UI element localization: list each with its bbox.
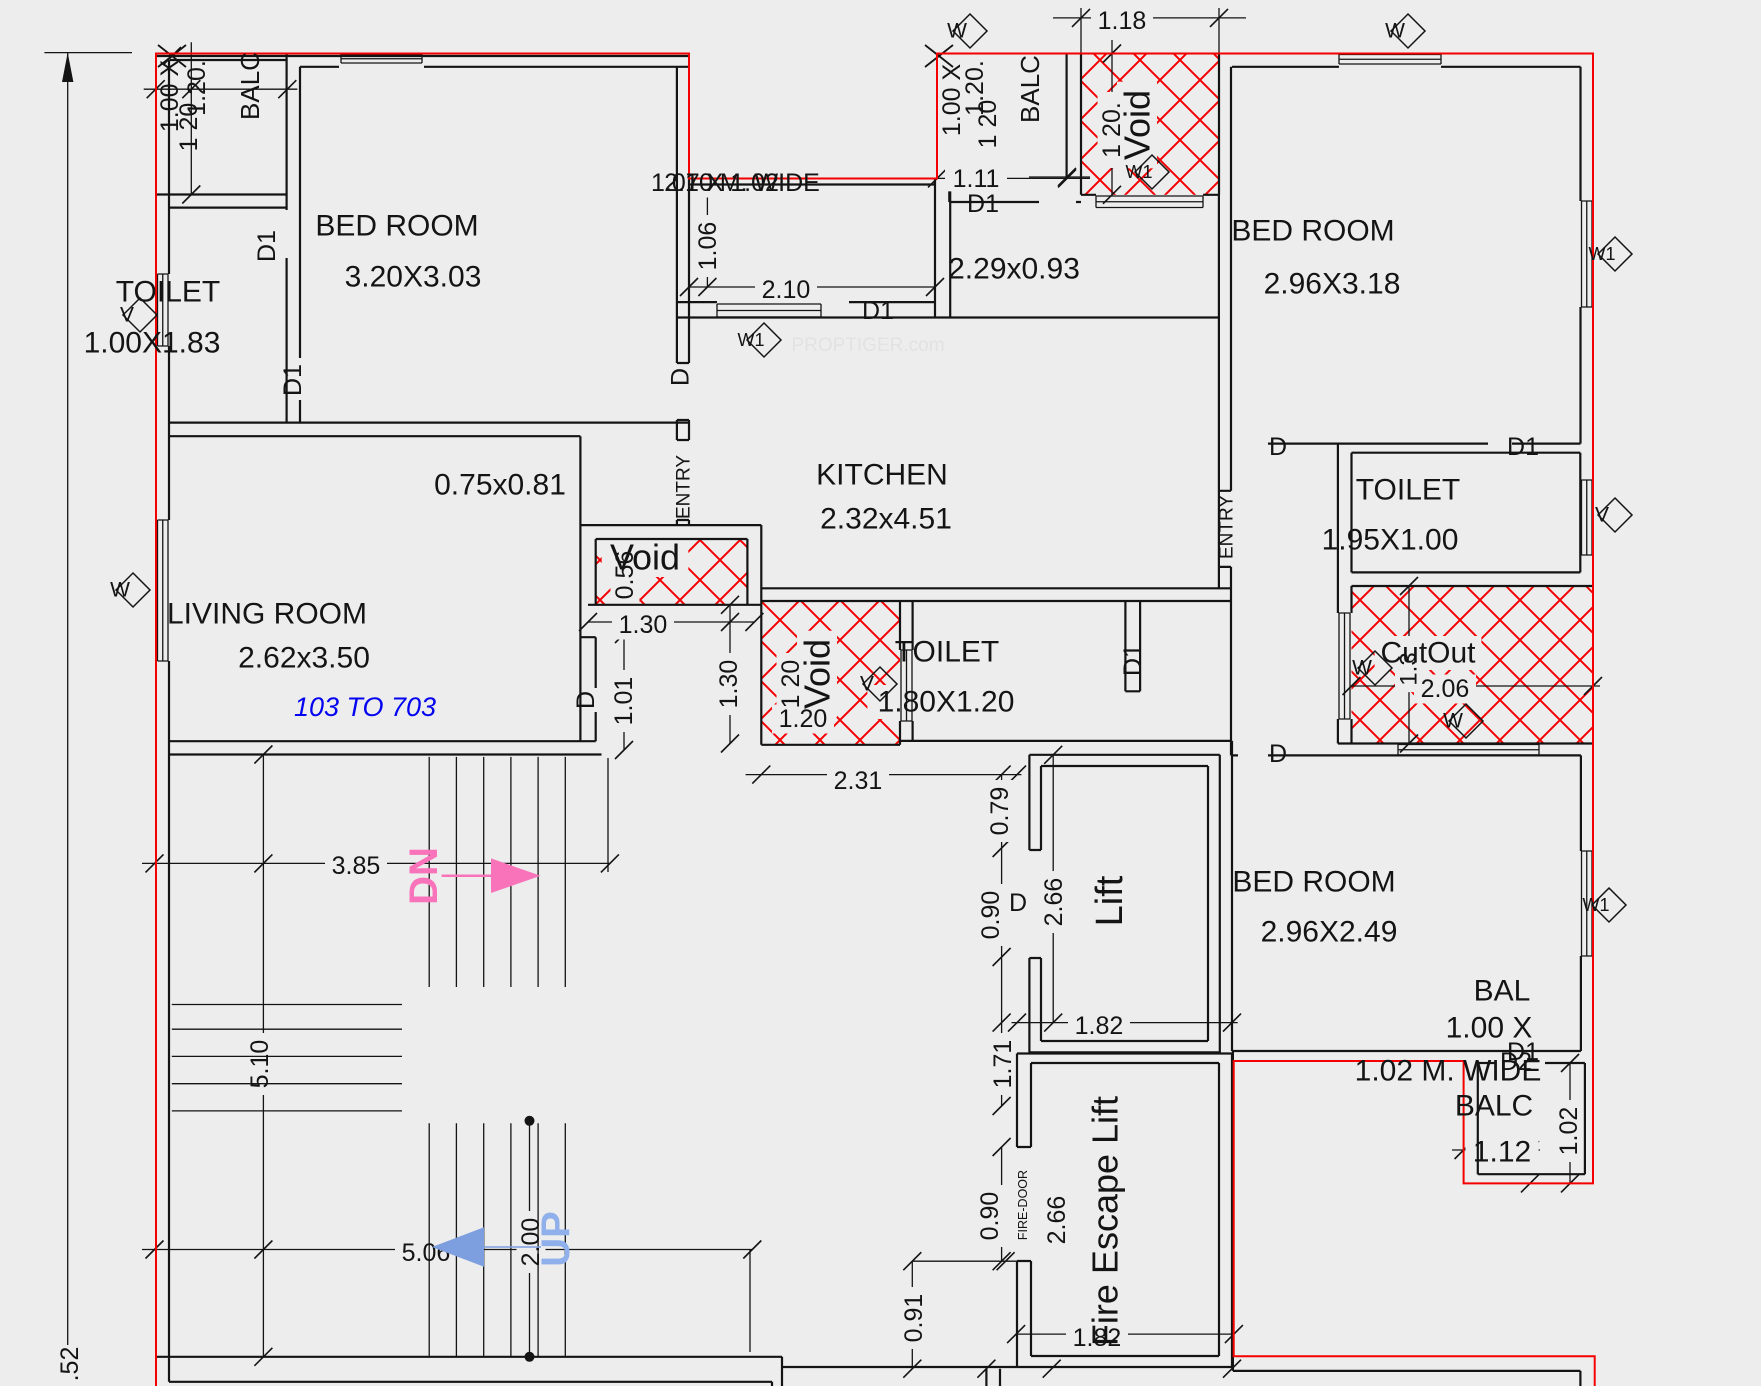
svg-text:W: W <box>1352 657 1372 680</box>
svg-text:1.82: 1.82 <box>1073 1324 1122 1352</box>
svg-text:2.31: 2.31 <box>834 767 883 795</box>
svg-text:2.66: 2.66 <box>1043 1196 1071 1245</box>
svg-text:1.00X1.83: 1.00X1.83 <box>84 327 221 360</box>
svg-text:Lift: Lift <box>1089 875 1131 926</box>
svg-text:W1: W1 <box>1126 162 1153 182</box>
svg-text:1.71: 1.71 <box>989 1040 1017 1089</box>
svg-text:BALC: BALC <box>1015 55 1045 123</box>
svg-text:2.96X3.18: 2.96X3.18 <box>1264 268 1401 301</box>
svg-text:2.96X2.49: 2.96X2.49 <box>1261 916 1398 949</box>
svg-text:D: D <box>572 691 600 709</box>
svg-text:D1: D1 <box>1119 644 1147 676</box>
svg-text:2.62x3.50: 2.62x3.50 <box>238 642 370 675</box>
svg-text:W1: W1 <box>1589 244 1616 264</box>
svg-text:D: D <box>667 368 695 386</box>
svg-text:1.82: 1.82 <box>1075 1012 1124 1040</box>
svg-text:103 TO 703: 103 TO 703 <box>294 692 436 722</box>
svg-text:BED ROOM: BED ROOM <box>315 210 478 243</box>
svg-text:0.56: 0.56 <box>611 551 639 600</box>
svg-text:0.79: 0.79 <box>986 787 1014 836</box>
svg-text:1.80X1.20: 1.80X1.20 <box>878 686 1015 719</box>
svg-text:LIVING ROOM: LIVING ROOM <box>167 598 367 631</box>
svg-text:V: V <box>860 673 874 696</box>
svg-text:1.3: 1.3 <box>1396 652 1423 685</box>
svg-text:1 20.: 1 20. <box>1098 102 1126 158</box>
svg-text:V: V <box>1595 504 1609 527</box>
svg-text:D1: D1 <box>862 297 894 325</box>
svg-text:1.30: 1.30 <box>715 660 743 709</box>
svg-text:2.32x4.51: 2.32x4.51 <box>820 503 952 536</box>
svg-text:0.90: 0.90 <box>977 891 1005 940</box>
svg-text:W: W <box>1385 20 1405 43</box>
svg-text:D1: D1 <box>279 364 307 396</box>
svg-text:DN: DN <box>402 847 446 905</box>
svg-text:W1: W1 <box>1583 895 1610 915</box>
svg-text:D1: D1 <box>1507 1038 1539 1066</box>
svg-text:UP: UP <box>534 1211 578 1267</box>
svg-text:BALC: BALC <box>235 52 265 120</box>
svg-text:1.11: 1.11 <box>953 165 1000 193</box>
svg-text:1.02: 1.02 <box>1555 1107 1583 1156</box>
svg-text:2.10: 2.10 <box>762 276 811 304</box>
svg-text:FIRE-DOOR: FIRE-DOOR <box>1016 1170 1030 1240</box>
svg-text:TOILET: TOILET <box>1356 474 1460 507</box>
svg-text:1.12: 1.12 <box>1473 1136 1531 1169</box>
svg-text:1.18: 1.18 <box>1098 7 1147 35</box>
svg-text:1 20: 1 20 <box>974 100 1002 149</box>
svg-text:1.95X1.00: 1.95X1.00 <box>1322 524 1459 557</box>
svg-text:BAL: BAL <box>1474 975 1531 1008</box>
svg-text:0.75x0.81: 0.75x0.81 <box>434 469 566 502</box>
svg-text:W: W <box>110 579 130 602</box>
svg-text:BED ROOM: BED ROOM <box>1232 866 1395 899</box>
svg-text:BALC: BALC <box>1455 1090 1533 1123</box>
svg-text:D1: D1 <box>1507 433 1539 461</box>
svg-text:2.29x0.93: 2.29x0.93 <box>948 253 1080 286</box>
svg-text:5.10: 5.10 <box>246 1040 274 1089</box>
svg-text:W1: W1 <box>738 330 765 350</box>
svg-text:Fire Escape Lift: Fire Escape Lift <box>1085 1096 1126 1346</box>
svg-text:TOILET: TOILET <box>895 636 999 669</box>
svg-text:D1: D1 <box>253 230 281 262</box>
svg-text:PROPTIGER.com: PROPTIGER.com <box>791 335 944 356</box>
svg-text:1.01: 1.01 <box>610 677 638 726</box>
svg-text:3.85: 3.85 <box>332 852 381 880</box>
svg-text:2.10 M. WIDE: 2.10 M. WIDE <box>664 169 820 197</box>
svg-text:KITCHEN: KITCHEN <box>816 459 948 492</box>
svg-text:1 20: 1 20 <box>777 660 805 709</box>
svg-text:D1: D1 <box>967 190 999 218</box>
svg-text:V: V <box>120 304 134 327</box>
svg-text:D: D <box>1009 889 1027 917</box>
svg-text:W: W <box>1443 710 1463 733</box>
svg-text:2.06: 2.06 <box>1421 675 1470 703</box>
svg-text:1.06: 1.06 <box>694 222 722 271</box>
svg-text:W: W <box>947 20 967 43</box>
svg-text:1 20: 1 20 <box>175 103 203 152</box>
svg-text:0.90: 0.90 <box>976 1192 1004 1241</box>
svg-text:.52: .52 <box>56 1347 84 1382</box>
svg-text:D: D <box>1269 433 1287 461</box>
svg-text:1.30: 1.30 <box>619 611 668 639</box>
svg-text:1.20: 1.20 <box>779 705 828 733</box>
svg-text:3.20X3.03: 3.20X3.03 <box>345 261 482 294</box>
svg-text:0.91: 0.91 <box>900 1294 928 1343</box>
svg-text:D: D <box>1269 740 1287 768</box>
svg-text:ENTRY: ENTRY <box>674 455 695 519</box>
svg-text:BED ROOM: BED ROOM <box>1231 215 1394 248</box>
svg-text:2.66: 2.66 <box>1040 878 1068 927</box>
svg-text:ENTRY: ENTRY <box>1217 495 1238 559</box>
